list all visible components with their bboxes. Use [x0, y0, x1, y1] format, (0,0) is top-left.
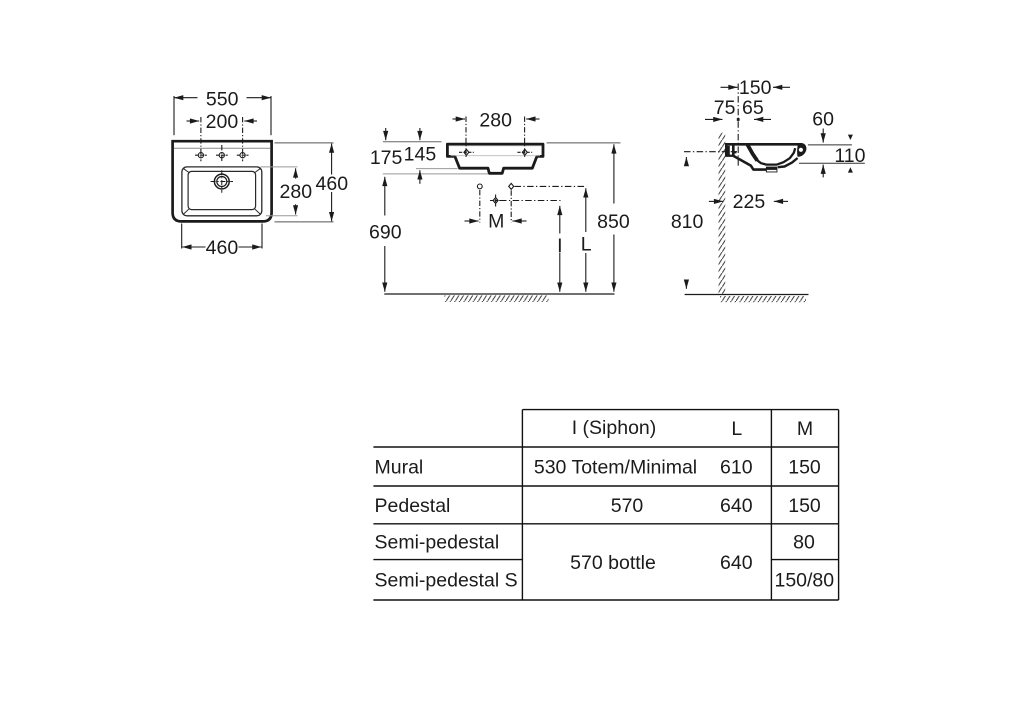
svg-text:80: 80	[793, 532, 815, 554]
svg-text:Semi-pedestal: Semi-pedestal	[375, 532, 500, 554]
svg-text:850: 850	[597, 211, 630, 233]
front view: rim lower faint line	[451, 155, 541, 157]
svg-text:145: 145	[404, 144, 437, 166]
dim M	[465, 220, 527, 222]
side view: front underside	[778, 158, 798, 167]
side: hole centerline horizontal	[684, 151, 737, 153]
svg-text:550: 550	[206, 89, 239, 111]
svg-text:150/80: 150/80	[774, 570, 834, 592]
front ground line	[384, 293, 614, 295]
front view: drain center diamond	[490, 195, 501, 207]
plan view: basin corner ticks	[184, 169, 261, 214]
svg-text:150: 150	[739, 77, 772, 99]
svg-text:690: 690	[369, 221, 402, 243]
plan view: tap hole right	[237, 117, 249, 161]
svg-text:610: 610	[720, 456, 753, 478]
svg-text:150: 150	[788, 456, 821, 478]
dim 225	[709, 200, 788, 202]
svg-text:460: 460	[206, 237, 239, 259]
svg-text:175: 175	[370, 147, 403, 169]
svg-text:Pedestal: Pedestal	[375, 495, 451, 517]
svg-text:280: 280	[280, 181, 313, 203]
svg-text:640: 640	[720, 552, 753, 574]
plan view: rear rim line	[174, 147, 270, 149]
svg-text:200: 200	[206, 111, 239, 133]
svg-text:65: 65	[742, 97, 764, 119]
svg-text:Mural: Mural	[375, 456, 424, 478]
plan view: basin inner rim rect	[182, 167, 262, 216]
side view: front nose	[797, 143, 806, 157]
plan view: tap hole center	[216, 145, 228, 161]
dim 150	[721, 86, 791, 88]
svg-text:60: 60	[812, 109, 834, 131]
dim 550	[174, 96, 271, 135]
dim 200	[187, 120, 258, 122]
side view: deck line	[726, 143, 800, 146]
side view: wall hook	[725, 143, 735, 157]
side view: outer underside	[733, 156, 766, 170]
dim 690	[384, 177, 386, 292]
plan view: basin outline	[173, 141, 272, 221]
svg-text:225: 225	[733, 191, 766, 213]
svg-text:530 Totem/Minimal: 530 Totem/Minimal	[534, 456, 697, 478]
side ground line	[685, 294, 809, 296]
dim 460 right	[275, 143, 334, 222]
dim 850	[547, 142, 621, 144]
svg-text:L: L	[581, 233, 592, 255]
dim 280 front	[453, 118, 540, 120]
svg-text:150: 150	[788, 495, 821, 517]
dim 110	[848, 135, 853, 173]
plan view: basin inner bottom rect	[188, 171, 256, 209]
svg-text:280: 280	[479, 109, 512, 131]
lower extension line right	[799, 162, 865, 164]
svg-text:110: 110	[834, 145, 865, 167]
up arrow under lower ext	[822, 165, 824, 178]
svg-text:810: 810	[671, 211, 704, 233]
dim 175	[383, 142, 488, 174]
front view: wall hole circle	[477, 184, 482, 223]
svg-text:75: 75	[714, 97, 736, 119]
side: datum dot	[737, 118, 740, 121]
svg-text:570: 570	[611, 495, 644, 517]
dim I	[559, 206, 561, 292]
svg-text:M: M	[797, 418, 813, 440]
dim 280 plan	[261, 167, 298, 216]
svg-text:M: M	[488, 211, 504, 233]
front view: tap hole right diamond	[517, 117, 532, 159]
svg-text:640: 640	[720, 495, 753, 517]
side view: wall hatch	[719, 133, 726, 295]
dim L	[585, 188, 587, 292]
front view: wall hole diamond right	[509, 183, 514, 222]
front view: rim inner line	[450, 145, 542, 147]
side: hole centerline vertical	[737, 84, 739, 167]
plan view: tap hole left	[195, 117, 207, 161]
side floor hatch	[720, 296, 806, 302]
front view: tap hole left diamond	[459, 117, 474, 159]
dim 460 bottom	[182, 224, 262, 249]
plan view: drain	[211, 170, 233, 192]
svg-text:570 bottle: 570 bottle	[570, 552, 656, 574]
svg-text:460: 460	[316, 173, 349, 195]
svg-text:I (Siphon): I (Siphon)	[572, 417, 657, 439]
centerline for I (lower dash-dot)	[500, 200, 561, 202]
rim extension line right	[808, 144, 852, 146]
side view: drain boss	[766, 167, 778, 173]
table grid	[373, 410, 838, 600]
front floor hatch	[445, 295, 549, 302]
centerline for L (upper dash-dot)	[515, 185, 587, 187]
svg-text:I: I	[557, 235, 562, 257]
side view: inner bowl	[752, 148, 796, 164]
side: wall hole mark	[734, 151, 736, 153]
side view: inner bowl back wall thick	[747, 144, 757, 160]
svg-text:L: L	[731, 418, 742, 440]
front view: basin profile	[447, 144, 543, 173]
svg-text:Semi-pedestal S: Semi-pedestal S	[375, 570, 518, 592]
dim 145	[416, 168, 458, 170]
